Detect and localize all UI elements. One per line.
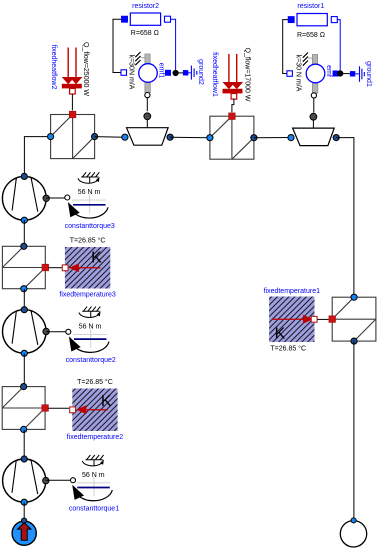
pump pump2 body xyxy=(3,310,47,354)
pipe pipe3 body xyxy=(2,246,45,288)
pump pump3 flowPort_a xyxy=(21,456,27,462)
fixedtemperature fixedtemperature1 port xyxy=(311,316,317,322)
fixedheatflow1 arrow bar xyxy=(223,89,243,94)
ground GND1 bars xyxy=(360,66,365,82)
pipe pipe5 heatPort xyxy=(329,316,336,323)
fan fan1 body xyxy=(127,128,169,146)
fixedtemperature fixedtemperature1 arrow line xyxy=(272,318,304,320)
fan fan1 flange xyxy=(144,113,151,120)
wire fixedheatflow2.port to pipe1.heatPort xyxy=(71,94,73,110)
fixedheatflow2 port xyxy=(70,88,76,94)
torque source constanttorque3 support arrowhead xyxy=(96,177,100,182)
fixedheatflow1 arrow heads xyxy=(223,82,244,89)
wire pump1 flange to constanttorque3 xyxy=(46,197,65,199)
torque source constanttorque3 support hatch xyxy=(82,172,99,177)
fan fan2 flowPort_a xyxy=(288,135,294,141)
fan fan2 flowPort_b xyxy=(333,135,339,141)
torque source constanttorque2 support arc xyxy=(79,313,100,318)
fixedtemperature fixedtemperature3 port xyxy=(62,265,68,271)
openTank body xyxy=(340,521,366,547)
wire pump2.flowPort_b to pipe4.flowPort_a xyxy=(23,354,25,387)
svg-text:T=26.85 °C: T=26.85 °C xyxy=(77,378,113,386)
node J2 junction xyxy=(337,70,343,76)
ambient1 arrow xyxy=(18,523,31,541)
pump pump2 flowPort_b xyxy=(21,350,27,356)
svg-text:Q_flow=25000 W: Q_flow=25000 W xyxy=(82,42,89,96)
wire pump1.flowPort_b to pipe3.flowPort_a xyxy=(23,220,25,246)
wire node J1 to ground2 pin xyxy=(178,72,183,74)
pump pump3 body xyxy=(3,459,46,502)
torque source constanttorque3 flange pin xyxy=(65,195,70,200)
pipe pipe2 heatPort xyxy=(229,113,236,120)
svg-text:k=30N m/A: k=30N m/A xyxy=(127,55,134,90)
pipe pipe1 flowPort_b xyxy=(92,133,98,139)
ambient1 port xyxy=(21,518,26,523)
wire fan2.flowPort_b to pipe5.flowPort_a xyxy=(336,138,354,297)
torque source constanttorque3 support stem xyxy=(89,177,91,184)
fixedheatflow2 arrow heads xyxy=(62,77,83,84)
fixedheatflow2 arrow bar xyxy=(62,84,82,89)
fixedtemperature fixedtemperature3 body xyxy=(65,247,110,289)
svg-text:constanttorque2: constanttorque2 xyxy=(66,357,116,364)
torque source constanttorque1 support line xyxy=(86,459,103,461)
svg-text:constanttorque3: constanttorque3 xyxy=(65,223,115,230)
torque source constanttorque3 torque arc xyxy=(70,206,108,218)
pipe pipe5 flowPort_b xyxy=(351,338,357,344)
svg-text:ground2: ground2 xyxy=(197,59,204,85)
emf U1 shaft lower xyxy=(145,82,150,93)
emf U2 pin p (left) xyxy=(287,71,293,77)
torque source constanttorque1 support arrowhead xyxy=(100,459,104,464)
fan fan2 body xyxy=(293,128,335,146)
resistor R1 pin p (left) xyxy=(288,17,294,23)
wire pipe1.flowPort_b to fan1.flowPort_a xyxy=(95,136,125,139)
fixedtemperature fixedtemperature3 arrowhead xyxy=(69,263,79,272)
pipe pipe2 flowPort_a xyxy=(207,135,213,141)
torque source constanttorque2 axis vertical xyxy=(90,328,92,348)
torque source constanttorque2 torque arc xyxy=(71,341,109,353)
torque source constanttorque3 torque level line xyxy=(73,204,106,206)
svg-text:K: K xyxy=(91,250,102,267)
pipe pipe4 heatPort xyxy=(42,405,49,412)
torque source constanttorque1 flange pin xyxy=(71,478,76,483)
fixedheatflow2 arrow lines xyxy=(68,48,76,79)
wire fan1.flowPort_b to pipe2.flowPort_a xyxy=(170,136,210,139)
svg-text:56 N m: 56 N m xyxy=(79,323,102,330)
emf U2 flange circle xyxy=(311,93,316,98)
pipe pipe2 body xyxy=(210,116,254,159)
node J1 junction xyxy=(173,70,179,76)
torque source constanttorque3 axis vertical xyxy=(89,194,91,214)
svg-text:fixedtemperature2: fixedtemperature2 xyxy=(67,434,124,441)
torque source constanttorque3 support arc xyxy=(78,178,99,183)
wire pump2 flange to constanttorque2 xyxy=(46,331,66,333)
torque source constanttorque1 support stem xyxy=(93,460,95,467)
wire pipe2.flowPort_b to fan2.flowPort_a xyxy=(254,137,291,139)
fixedtemperature fixedtemperature3 arrow line xyxy=(79,267,101,269)
pump pump2 vanes xyxy=(12,311,38,345)
emf U1 shaft upper xyxy=(145,54,150,65)
torque source constanttorque1 axis horizontal xyxy=(76,482,110,484)
svg-text:fixedheatflow1: fixedheatflow1 xyxy=(211,52,218,97)
wire pipe5.flowPort_b to openTank xyxy=(353,341,355,519)
pipe pipe4 flowPort_b xyxy=(21,426,27,432)
pump pump3 vanes xyxy=(12,460,38,494)
torque source constanttorque1 support hatch xyxy=(87,455,104,460)
ground GND2 bars xyxy=(191,66,196,80)
pipe pipe3 flowPort_b xyxy=(21,286,27,292)
torque source constanttorque2 support line xyxy=(82,310,99,312)
ground GND1 lead xyxy=(355,73,359,75)
pump pump1 vanes xyxy=(12,178,38,212)
torque source constanttorque1 support arc xyxy=(82,461,103,466)
wire node J2 to ground1 pin xyxy=(343,73,350,75)
svg-text:T=26.85 °C: T=26.85 °C xyxy=(270,344,306,352)
torque source constanttorque3 torque arrowhead xyxy=(68,202,80,217)
torque source constanttorque2 support arrowhead xyxy=(97,311,101,316)
fan fan1 flowPort_a xyxy=(122,134,128,140)
emf U2 body circle xyxy=(306,64,325,83)
svg-text:resistor1: resistor1 xyxy=(297,3,324,10)
torque source constanttorque2 flange pin xyxy=(66,329,71,334)
torque source constanttorque3 axis horizontal xyxy=(72,199,106,201)
wire resistor2.n to node J1 xyxy=(171,19,176,71)
resistor R2 pin p (left) xyxy=(122,16,128,22)
svg-text:emf: emf xyxy=(325,65,332,77)
emf U2 shaft upper xyxy=(312,55,317,66)
fixedtemperature fixedtemperature2 arrow line xyxy=(86,409,108,411)
pump pump1 body xyxy=(2,176,46,220)
emf U1 pin p (left) xyxy=(121,70,127,76)
pipe pipe4 flowPort_a xyxy=(21,384,27,390)
pump pump3 flange xyxy=(43,477,49,483)
emf U1 body circle xyxy=(139,64,158,83)
pipe pipe4 body xyxy=(2,387,45,430)
emf U2 support link xyxy=(308,57,312,59)
svg-text:fixedheatflow2: fixedheatflow2 xyxy=(50,45,57,90)
wire pump3 flange to constanttorque1 xyxy=(46,479,71,481)
fixedtemperature fixedtemperature1 body xyxy=(269,297,314,343)
torque source constanttorque1 torque arrowhead xyxy=(72,485,84,500)
torque source constanttorque2 support hatch xyxy=(83,307,100,312)
pump pump1 flowPort_b xyxy=(21,217,27,223)
svg-text:emf1: emf1 xyxy=(157,63,164,79)
svg-text:K: K xyxy=(101,393,112,410)
fixedtemperature fixedtemperature2 arrowhead xyxy=(76,405,86,414)
emf U1 support link xyxy=(141,57,145,59)
wire resistor2.p to emf1.p xyxy=(113,19,121,72)
svg-text:K: K xyxy=(275,325,286,342)
wire emf1 flange to fan1 flange xyxy=(146,98,148,112)
wire pipe3.flowPort_b to pump2.flowPort_a xyxy=(23,289,25,310)
emf U1 pin n (right) xyxy=(165,70,170,75)
torque source constanttorque3 support line xyxy=(81,176,98,178)
fan fan2 flange xyxy=(310,113,317,120)
fan fan2 stem xyxy=(312,120,314,128)
ground GND2 pin xyxy=(183,71,188,76)
svg-text:k=30 N m/A: k=30 N m/A xyxy=(295,55,302,92)
svg-text:resistor2: resistor2 xyxy=(132,3,159,10)
torque source constanttorque2 torque level line xyxy=(74,338,107,340)
emf U2 support hatch xyxy=(303,53,308,66)
pipe pipe5 body xyxy=(332,297,376,341)
fixedtemperature fixedtemperature2 body xyxy=(72,389,117,432)
svg-text:ground1: ground1 xyxy=(365,61,372,87)
resistor R2 pin n (right) xyxy=(165,16,171,22)
svg-text:56 N m: 56 N m xyxy=(78,189,101,196)
svg-text:fixedtemperature3: fixedtemperature3 xyxy=(59,291,116,298)
pipe pipe1 heatPort xyxy=(69,111,76,118)
ambient1 body xyxy=(12,521,36,545)
resistor R2 body xyxy=(130,13,160,25)
emf U1 flange circle xyxy=(145,93,150,98)
pipe pipe3 heatPort xyxy=(42,264,49,271)
wire fixedheatflow1.port to pipe2.heatPort xyxy=(232,99,234,112)
wire resistor1.p to emf.p xyxy=(283,20,288,74)
pump pump1 flowPort_a xyxy=(21,173,27,179)
svg-text:Q_flow=17000 W: Q_flow=17000 W xyxy=(243,48,250,102)
svg-text:constanttorque1: constanttorque1 xyxy=(69,506,119,513)
fixedheatflow1 port xyxy=(231,94,237,100)
emf U1 support hatch xyxy=(135,52,140,65)
pump pump2 flange xyxy=(43,328,49,334)
pipe pipe1 flowPort_a xyxy=(48,133,54,139)
resistor R1 body xyxy=(297,14,327,26)
wire pump3.flowPort_b to ambient1 xyxy=(23,502,25,519)
svg-text:56 N m: 56 N m xyxy=(82,472,105,479)
emf U2 pin n (right) xyxy=(333,71,338,76)
openTank port xyxy=(351,518,356,523)
svg-text:R=658 Ω: R=658 Ω xyxy=(131,30,159,37)
pump pump2 flowPort_a xyxy=(21,307,27,313)
fixedtemperature fixedtemperature1 arrowhead xyxy=(303,315,313,324)
wire resistor1.n to node J2 xyxy=(337,20,340,72)
pump pump1 flange xyxy=(43,195,49,201)
svg-text:fixedtemperature1: fixedtemperature1 xyxy=(264,288,321,295)
wire pipe4.flowPort_b to pump3.flowPort_a xyxy=(23,430,25,459)
pipe pipe2 flowPort_b xyxy=(251,135,257,141)
wire emf flange to fan2 flange xyxy=(313,98,315,113)
torque source constanttorque2 support stem xyxy=(90,311,92,318)
svg-text:T=26.85 °C: T=26.85 °C xyxy=(70,237,106,245)
svg-text:R=658 Ω: R=658 Ω xyxy=(297,32,325,39)
wire pipe4.heatPort to fixedtemperature2.port xyxy=(48,407,69,409)
torque source constanttorque1 torque level line xyxy=(77,487,110,489)
fixedheatflow1 arrow lines xyxy=(229,54,237,83)
fan fan1 flowPort_b xyxy=(167,134,173,140)
resistor R1 pin n (right) xyxy=(331,17,337,23)
ground GND2 lead xyxy=(188,72,191,74)
torque source constanttorque2 torque arrowhead xyxy=(69,336,81,351)
wire pipe3.heatPort to fixedtemperature3.port xyxy=(48,267,62,269)
fan fan1 stem xyxy=(146,120,148,128)
pump pump3 flowPort_b xyxy=(21,499,27,505)
fixedtemperature fixedtemperature2 port xyxy=(70,407,76,413)
pipe pipe5 flowPort_a xyxy=(351,294,357,300)
wire fixedtemperature1.port to pipe5.heatPort xyxy=(317,318,328,320)
torque source constanttorque1 torque arc xyxy=(75,489,113,501)
emf U2 shaft lower xyxy=(312,82,317,93)
wire pipe1.flowPort_a to pump1.flowPort_b xyxy=(24,137,50,176)
torque source constanttorque1 axis vertical xyxy=(93,477,95,497)
ground GND1 pin xyxy=(350,72,355,77)
torque source constanttorque2 axis horizontal xyxy=(73,333,107,335)
pipe pipe3 flowPort_a xyxy=(21,243,27,249)
pipe pipe1 body xyxy=(51,115,95,159)
